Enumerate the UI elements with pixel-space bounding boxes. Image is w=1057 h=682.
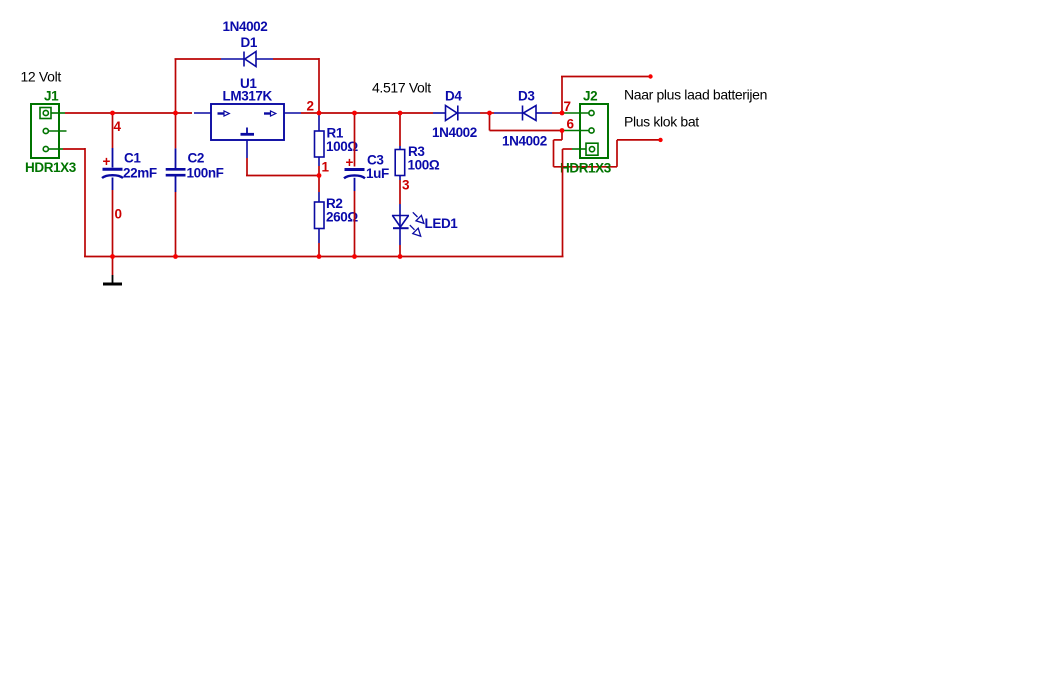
- junction rail C1: [110, 254, 115, 259]
- wire C3 node to R3 node: [355, 112, 401, 114]
- wire node 2 to C3 node: [319, 112, 355, 114]
- capacitor C2: [166, 148, 186, 192]
- wire LED1 to rail: [399, 245, 401, 257]
- LED1 arrow a: [413, 212, 424, 223]
- junction node 2: [317, 111, 322, 116]
- svg-text:J2: J2: [583, 89, 597, 104]
- J1 pin1 stub: [51, 112, 65, 114]
- junction C2 top: [173, 111, 178, 116]
- wire C1 branch lower: [112, 190, 114, 257]
- wire J2 pin1 to rail: [562, 149, 564, 257]
- wire R3 branch upper: [399, 113, 401, 146]
- svg-text:+: +: [103, 154, 111, 169]
- diode D1: [244, 52, 256, 67]
- diode D4: [446, 106, 458, 121]
- U1 input arrow: [218, 111, 230, 116]
- svg-text:D3: D3: [518, 89, 535, 104]
- capacitor C3: [344, 170, 365, 192]
- J2 pin1 stub: [572, 148, 586, 150]
- D3 left lead: [494, 112, 523, 114]
- resistor R1: [315, 131, 325, 157]
- svg-text:7: 7: [564, 99, 572, 114]
- svg-text:C1: C1: [124, 151, 141, 166]
- svg-text:12 Volt: 12 Volt: [21, 69, 62, 85]
- wire klok net down: [561, 131, 563, 140]
- svg-text:D4: D4: [445, 89, 462, 104]
- svg-text:LED1: LED1: [425, 216, 459, 231]
- U1 adj symbol: [241, 128, 255, 135]
- R2 top lead: [318, 192, 320, 202]
- svg-text:260Ω: 260Ω: [326, 210, 358, 225]
- wire node 1 to R2: [318, 176, 320, 193]
- U1 output lead: [284, 112, 301, 114]
- svg-text:100nF: 100nF: [187, 166, 224, 181]
- wire J1 pin3 out: [63, 148, 85, 150]
- svg-text:1: 1: [322, 160, 330, 175]
- wire node 7 riser: [561, 77, 563, 114]
- U1 input lead: [194, 112, 211, 114]
- svg-text:4.517 Volt: 4.517 Volt: [372, 80, 431, 96]
- svg-text:1N4002: 1N4002: [223, 19, 268, 34]
- svg-text:Naar plus laad batterijen: Naar plus laad batterijen: [624, 87, 767, 103]
- wire D1 top left: [175, 58, 222, 60]
- wire D1 top right: [273, 58, 319, 60]
- wire klok net up: [616, 140, 618, 167]
- wire D3 to node 7: [552, 112, 562, 114]
- svg-text:6: 6: [567, 117, 575, 132]
- wire C3 branch lower: [354, 191, 356, 257]
- diode D3: [523, 106, 537, 121]
- wire C3 branch upper: [354, 113, 356, 167]
- wire adj down: [246, 158, 248, 176]
- svg-text:HDR1X3: HDR1X3: [560, 161, 612, 176]
- wire U1 output to node 2: [301, 112, 319, 114]
- svg-text:LM317K: LM317K: [223, 89, 273, 104]
- R3 top lead: [399, 146, 401, 150]
- connector J1: [31, 104, 59, 158]
- wire D1 left riser: [175, 59, 177, 114]
- wire left branch down: [84, 148, 86, 257]
- LED1 top lead: [399, 204, 401, 216]
- wire C2 branch lower: [175, 192, 177, 257]
- wire klok net down left: [553, 140, 555, 167]
- wire J2 pin1 left: [563, 148, 573, 150]
- wire junction to D3: [490, 112, 495, 114]
- svg-text:1N4002: 1N4002: [432, 125, 477, 140]
- svg-text:1uF: 1uF: [366, 166, 389, 181]
- D4 right lead: [458, 112, 480, 114]
- wire klok stub: [617, 139, 661, 141]
- stub end dot klok: [658, 138, 662, 142]
- J2 pin2 stub: [564, 130, 589, 132]
- junction rail R2: [317, 254, 322, 259]
- J1 pin2 stub: [48, 130, 66, 132]
- R3 bottom lead: [399, 176, 401, 181]
- ground: [103, 275, 122, 284]
- R1 bottom lead: [318, 157, 320, 166]
- D1 right lead: [256, 58, 273, 60]
- junction rail LED: [398, 254, 403, 259]
- wire R1 to node 1: [318, 166, 320, 176]
- junction R3 top: [398, 111, 403, 116]
- wire node 4 to C2 node: [113, 112, 176, 114]
- connector J2: [580, 104, 608, 158]
- svg-text:C2: C2: [188, 151, 204, 166]
- D1 left lead: [221, 58, 244, 60]
- wire D4 to junction: [480, 112, 490, 114]
- wire to batterijen stub: [561, 76, 651, 78]
- junction D4 out: [487, 111, 492, 116]
- svg-text:D1: D1: [241, 35, 258, 50]
- R2 bottom lead: [318, 229, 320, 244]
- resistor R2: [315, 202, 325, 229]
- wire R3 node to D4: [400, 112, 433, 114]
- wire jog to node 6: [490, 130, 563, 132]
- svg-text:100Ω: 100Ω: [408, 158, 440, 173]
- D3 right lead: [536, 112, 552, 114]
- junction rail C2: [173, 254, 178, 259]
- LED1: [392, 216, 409, 229]
- junction node 7: [560, 111, 565, 116]
- wire J1 pin1 to node 4: [65, 112, 113, 114]
- svg-text:+: +: [346, 155, 354, 170]
- stub end dot batterijen: [648, 74, 652, 78]
- wire node 3: [399, 180, 401, 204]
- svg-text:100Ω: 100Ω: [326, 139, 358, 154]
- R1 top lead: [318, 114, 320, 131]
- svg-text:J1: J1: [44, 89, 59, 104]
- wire junction down jog: [489, 113, 491, 131]
- wire ground stub: [112, 257, 114, 276]
- wire R2 to rail: [318, 243, 320, 257]
- capacitor C1: [102, 148, 123, 190]
- LED1 arrow b: [410, 225, 421, 236]
- wire C2 node to U1 input: [176, 112, 193, 114]
- wire C2 branch upper: [175, 113, 177, 148]
- wire C1 branch upper: [112, 113, 114, 148]
- wire adj to node 1: [246, 175, 319, 177]
- bottom rail: [84, 256, 564, 258]
- D4 left lead: [433, 112, 446, 114]
- junction node 1: [317, 173, 322, 178]
- svg-text:Plus klok bat: Plus klok bat: [624, 113, 699, 129]
- junction node 6: [560, 128, 565, 133]
- resistor R3: [395, 150, 405, 176]
- junction C3 top: [352, 111, 357, 116]
- J2 pin3 stub: [564, 112, 589, 114]
- regulator U1 box: [211, 104, 284, 140]
- U1 output arrow: [264, 111, 276, 116]
- svg-text:3: 3: [402, 178, 410, 193]
- svg-text:4: 4: [114, 119, 122, 134]
- junction node 4: [110, 111, 115, 116]
- J1 pin3 stub: [48, 148, 63, 150]
- svg-text:0: 0: [115, 207, 123, 222]
- wire klok net jog left: [554, 139, 563, 141]
- svg-text:2: 2: [307, 99, 315, 114]
- wire klok net across: [554, 166, 618, 168]
- svg-text:1N4002: 1N4002: [502, 134, 547, 149]
- wire D1 right riser: [318, 58, 320, 113]
- U1 adj lead: [246, 140, 248, 158]
- junction rail C3: [352, 254, 357, 259]
- LED1 bottom lead: [399, 228, 401, 245]
- svg-text:22mF: 22mF: [123, 166, 157, 181]
- svg-text:HDR1X3: HDR1X3: [25, 160, 77, 175]
